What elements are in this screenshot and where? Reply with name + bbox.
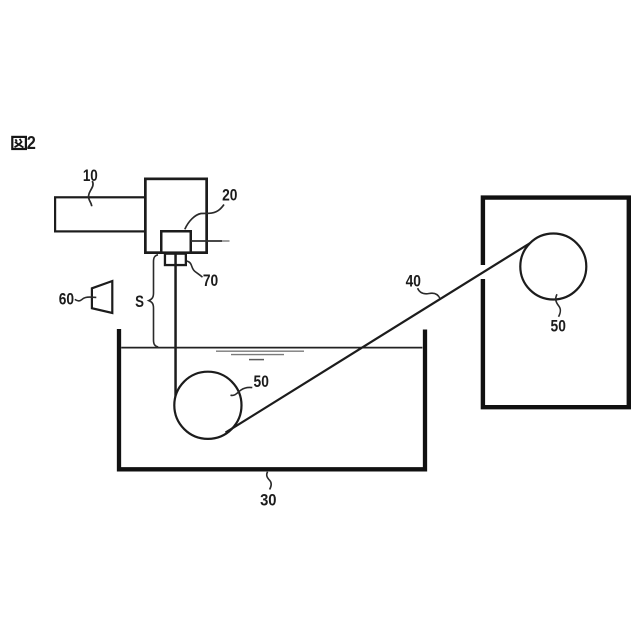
- leader for 40: [418, 288, 440, 298]
- line from block 20 to the right: [191, 240, 222, 242]
- nozzle 70 (small box under head): [165, 254, 186, 265]
- tank 30 (three thick walls): [119, 329, 425, 469]
- svg-text:50: 50: [254, 373, 269, 392]
- brace S (distance bracket): [149, 255, 158, 347]
- leader for 60: [75, 297, 97, 301]
- figure title 図2 : kanji 図 drawn as paths: [12, 137, 26, 149]
- svg-text:20: 20: [222, 186, 237, 205]
- roller 50 in tank (circle): [174, 372, 241, 439]
- roller 50 in chamber (circle): [520, 234, 586, 300]
- svg-text:S: S: [135, 293, 144, 312]
- svg-text:60: 60: [59, 290, 74, 309]
- head housing (large rectangle): [145, 179, 206, 253]
- svg-text:70: 70: [203, 272, 218, 291]
- svg-text:10: 10: [83, 166, 98, 185]
- ripple mark 1: [216, 350, 304, 352]
- svg-text:30: 30: [260, 492, 277, 510]
- web 40 (diagonal line to right roller): [226, 243, 532, 433]
- sensor 60 (horn/trapezoid): [92, 281, 112, 313]
- leader for 20: [185, 205, 224, 230]
- ripple mark 2: [231, 354, 284, 356]
- pipe 10 (horizontal bar): [55, 197, 147, 231]
- svg-text:50: 50: [551, 317, 566, 336]
- wire (vertical web from nozzle to roller): [174, 252, 177, 406]
- svg-text:2: 2: [27, 132, 36, 153]
- svg-text:40: 40: [406, 272, 421, 291]
- leader for 10: [88, 181, 93, 206]
- water surface line: [121, 347, 422, 349]
- leader for 50 in tank: [231, 387, 253, 395]
- ripple mark 3: [249, 359, 264, 361]
- leader for 50 in chamber: [556, 294, 561, 317]
- block 20 (inner small rectangle): [161, 231, 191, 252]
- leader for 30: [267, 472, 272, 490]
- chamber (right box with web entry gap): [483, 198, 629, 408]
- leader for 70: [187, 261, 203, 277]
